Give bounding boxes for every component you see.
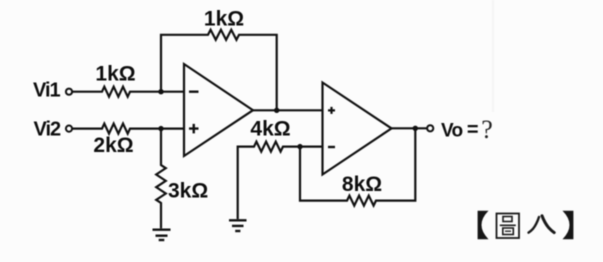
svg-text:1kΩ: 1kΩ [204,8,244,31]
svg-text:4kΩ: 4kΩ [250,118,290,141]
svg-text:Vi1: Vi1 [33,80,61,102]
svg-text:3kΩ: 3kΩ [168,180,208,203]
svg-text:?: ? [481,115,493,144]
svg-text:Vi2: Vi2 [34,118,62,140]
svg-text:=: = [467,119,479,141]
svg-text:8kΩ: 8kΩ [342,173,382,196]
svg-text:2kΩ: 2kΩ [93,134,133,157]
svg-text:1kΩ: 1kΩ [95,63,135,86]
svg-text:Vo: Vo [441,121,462,142]
